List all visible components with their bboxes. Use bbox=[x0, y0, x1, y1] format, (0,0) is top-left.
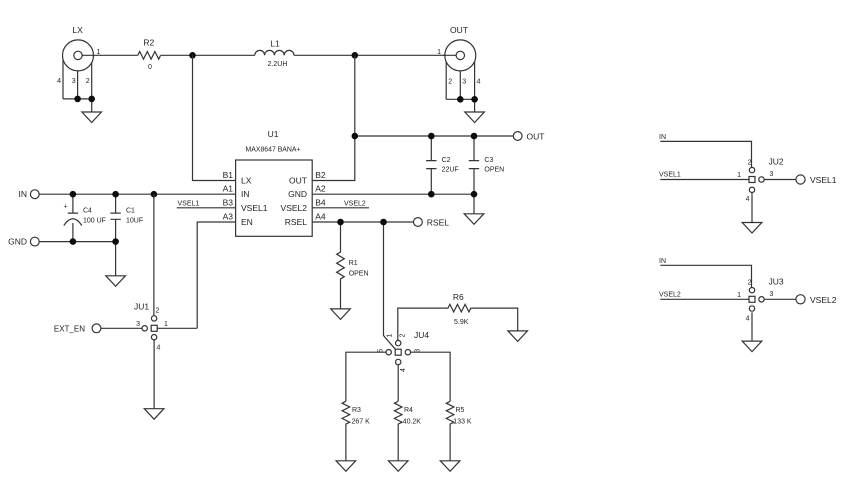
svg-text:40.2K: 40.2K bbox=[403, 419, 422, 426]
svg-text:5.9K: 5.9K bbox=[454, 319, 469, 326]
svg-text:GND: GND bbox=[288, 189, 307, 199]
svg-text:4: 4 bbox=[400, 368, 407, 372]
svg-text:C3: C3 bbox=[484, 157, 493, 164]
svg-text:JU3: JU3 bbox=[769, 277, 784, 287]
svg-text:U1: U1 bbox=[268, 129, 279, 139]
svg-text:C2: C2 bbox=[442, 157, 451, 164]
svg-text:3: 3 bbox=[462, 79, 466, 86]
svg-text:R4: R4 bbox=[404, 407, 413, 414]
svg-text:OPEN: OPEN bbox=[484, 167, 504, 174]
svg-text:L1: L1 bbox=[270, 39, 280, 49]
svg-text:2: 2 bbox=[400, 334, 407, 338]
svg-text:IN: IN bbox=[659, 134, 666, 141]
svg-text:3: 3 bbox=[72, 78, 76, 85]
svg-text:0: 0 bbox=[148, 64, 152, 71]
svg-text:LX: LX bbox=[72, 25, 83, 35]
svg-text:4: 4 bbox=[746, 196, 750, 203]
svg-text:VSEL1: VSEL1 bbox=[810, 175, 837, 185]
svg-text:2: 2 bbox=[748, 160, 752, 167]
svg-text:R1: R1 bbox=[349, 260, 358, 267]
svg-text:RSEL: RSEL bbox=[427, 217, 449, 227]
svg-text:4: 4 bbox=[57, 78, 61, 85]
svg-text:1: 1 bbox=[164, 321, 168, 328]
svg-text:VSEL1: VSEL1 bbox=[178, 201, 200, 208]
svg-text:2: 2 bbox=[86, 78, 90, 85]
svg-text:EXT_EN: EXT_EN bbox=[54, 325, 85, 334]
svg-text:EN: EN bbox=[241, 217, 253, 227]
svg-text:IN: IN bbox=[659, 258, 666, 265]
svg-text:JU2: JU2 bbox=[769, 157, 784, 167]
svg-text:1: 1 bbox=[737, 172, 741, 179]
svg-text:VSEL2: VSEL2 bbox=[810, 295, 837, 305]
svg-text:OUT: OUT bbox=[450, 25, 468, 35]
svg-text:B4: B4 bbox=[315, 198, 326, 208]
svg-text:A3: A3 bbox=[223, 212, 234, 222]
svg-text:+: + bbox=[64, 204, 68, 211]
svg-text:OPEN: OPEN bbox=[349, 271, 369, 278]
svg-text:1: 1 bbox=[387, 334, 394, 338]
svg-text:OUT: OUT bbox=[527, 131, 545, 141]
svg-text:A4: A4 bbox=[315, 212, 326, 222]
svg-text:IN: IN bbox=[19, 189, 28, 199]
svg-text:GND: GND bbox=[8, 237, 27, 247]
svg-text:4: 4 bbox=[157, 345, 161, 352]
svg-text:1: 1 bbox=[737, 292, 741, 299]
svg-text:C4: C4 bbox=[83, 208, 92, 215]
svg-text:1: 1 bbox=[437, 49, 441, 56]
svg-text:3: 3 bbox=[770, 171, 774, 178]
svg-text:22UF: 22UF bbox=[442, 167, 459, 174]
svg-text:VSEL2: VSEL2 bbox=[281, 203, 308, 213]
svg-text:4: 4 bbox=[477, 79, 481, 86]
svg-text:LX: LX bbox=[241, 175, 252, 185]
svg-text:267 K: 267 K bbox=[352, 419, 371, 426]
svg-text:3: 3 bbox=[136, 321, 140, 328]
svg-text:2: 2 bbox=[448, 79, 452, 86]
svg-text:2: 2 bbox=[156, 308, 160, 315]
svg-text:B3: B3 bbox=[223, 198, 234, 208]
svg-text:R3: R3 bbox=[352, 407, 361, 414]
svg-text:R6: R6 bbox=[453, 292, 464, 302]
svg-text:VSEL1: VSEL1 bbox=[241, 203, 268, 213]
svg-text:A2: A2 bbox=[315, 184, 326, 194]
svg-text:JU1: JU1 bbox=[134, 302, 149, 312]
svg-text:MAX8647 BANA+: MAX8647 BANA+ bbox=[246, 147, 301, 154]
svg-text:2: 2 bbox=[748, 280, 752, 287]
svg-text:1: 1 bbox=[97, 49, 101, 56]
svg-text:B1: B1 bbox=[223, 170, 234, 180]
svg-text:RSEL: RSEL bbox=[285, 217, 307, 227]
svg-text:5: 5 bbox=[377, 349, 384, 353]
svg-text:OUT: OUT bbox=[289, 175, 307, 185]
svg-text:B2: B2 bbox=[315, 170, 326, 180]
svg-text:R2: R2 bbox=[143, 38, 154, 48]
svg-text:IN: IN bbox=[241, 189, 250, 199]
svg-text:133 K: 133 K bbox=[453, 419, 472, 426]
svg-text:10UF: 10UF bbox=[126, 217, 143, 224]
svg-text:3: 3 bbox=[414, 349, 421, 353]
svg-text:A1: A1 bbox=[223, 184, 234, 194]
svg-text:R5: R5 bbox=[456, 407, 465, 414]
svg-text:JU4: JU4 bbox=[414, 330, 429, 340]
svg-text:VSEL1: VSEL1 bbox=[659, 172, 681, 179]
svg-text:4: 4 bbox=[746, 316, 750, 323]
svg-text:3: 3 bbox=[770, 291, 774, 298]
svg-text:VSEL2: VSEL2 bbox=[344, 201, 366, 208]
svg-text:VSEL2: VSEL2 bbox=[659, 291, 681, 298]
svg-text:100 UF: 100 UF bbox=[83, 217, 106, 224]
svg-text:2.2UH: 2.2UH bbox=[268, 61, 288, 68]
svg-text:C1: C1 bbox=[126, 208, 135, 215]
